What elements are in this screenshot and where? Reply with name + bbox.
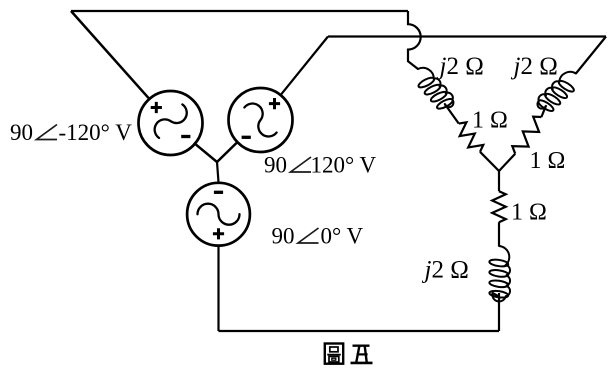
wire crossover hop — [408, 11, 421, 69]
svg-text:1 Ω: 1 Ω — [530, 148, 566, 174]
wire R2 to vertex — [499, 154, 515, 171]
wire right riser — [498, 293, 500, 331]
svg-text:1 Ω: 1 Ω — [472, 108, 508, 134]
wire coil2 to R2 — [541, 106, 546, 117]
angle symbol 3 — [298, 228, 319, 243]
svg-text:90: 90 — [10, 120, 33, 145]
wire R1 to vertex — [480, 152, 499, 171]
wire right diagonal from rail B — [576, 37, 606, 74]
wire neutral node to source C — [217, 162, 219, 182]
resistor 1ohm left branch — [459, 122, 484, 152]
wire vertex down — [498, 171, 500, 191]
svg-text:90: 90 — [264, 153, 287, 178]
svg-text:0° V: 0° V — [321, 224, 364, 249]
wire source C down — [217, 246, 219, 331]
sine symbol source B — [238, 99, 283, 140]
wire left diagonal to source A — [71, 11, 149, 98]
AC source Vcn (bottom) circle — [187, 183, 250, 246]
wire source A to neutral node — [196, 144, 217, 162]
wire R3 to coil3 — [498, 222, 500, 246]
minus source B — [242, 136, 251, 139]
svg-text:j2 Ω: j2 Ω — [437, 53, 484, 80]
angle symbol 1 — [37, 125, 58, 140]
wire neutral node to source B — [217, 143, 237, 162]
wire rail B — [328, 35, 606, 37]
minus source A — [181, 135, 190, 138]
inductor j2 middle branch — [489, 246, 510, 301]
sine symbol source C — [198, 204, 240, 225]
angle symbol 2 — [291, 157, 312, 172]
wire top rail A — [71, 10, 408, 12]
inductor j2 right branch — [534, 67, 584, 116]
resistor 1ohm right branch — [512, 117, 541, 154]
minus source C — [214, 191, 223, 194]
svg-text:120° V: 120° V — [311, 153, 377, 178]
wire coil1 to R1 — [445, 104, 459, 124]
wire coil3 exit — [493, 293, 500, 297]
plus source A — [151, 102, 162, 113]
inductor j2 left branch — [409, 63, 457, 114]
AC source Van (left) circle — [139, 91, 203, 155]
svg-text:90: 90 — [272, 224, 295, 249]
resistor 1ohm middle branch — [492, 191, 506, 222]
wire bottom rail — [219, 330, 500, 332]
AC source Vbn (right) circle — [229, 88, 293, 152]
wire source B to rail B — [281, 37, 328, 95]
plus source B — [269, 98, 280, 109]
svg-text:j2 Ω: j2 Ω — [511, 53, 558, 80]
caption Figure Five (drawn CJK glyphs) — [325, 344, 373, 364]
svg-text:j2 Ω: j2 Ω — [422, 257, 469, 284]
svg-text:-120° V: -120° V — [59, 120, 133, 145]
sine symbol source A — [151, 99, 191, 144]
svg-text:1 Ω: 1 Ω — [511, 200, 547, 226]
plus source C — [213, 228, 224, 239]
